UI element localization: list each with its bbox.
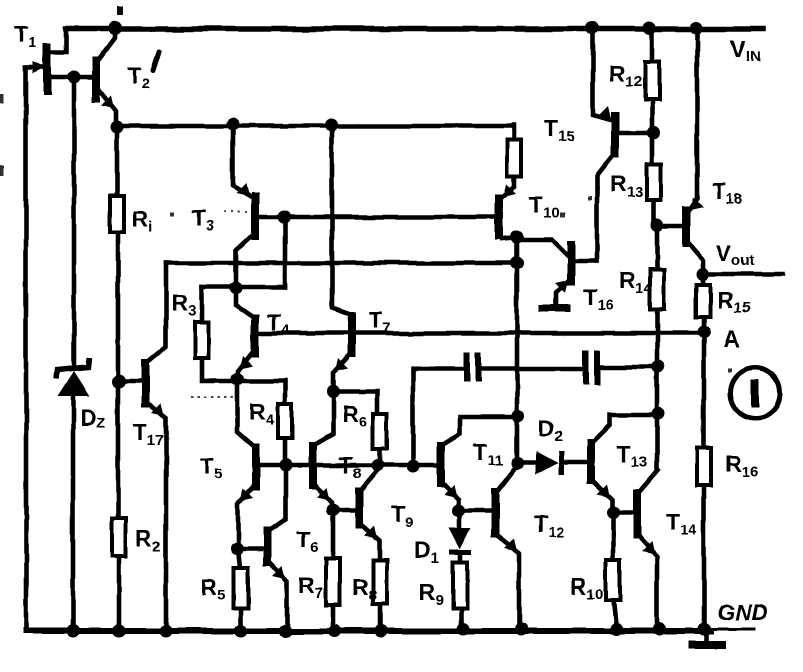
wire T4 emitter bbox=[238, 353, 252, 379]
arrow T3 emitter bbox=[236, 183, 249, 196]
wire T4 collector bbox=[236, 288, 252, 316]
wire Vout line bbox=[703, 272, 783, 277]
svg-text:GND: GND bbox=[717, 599, 768, 625]
arrow T13 emitter bbox=[597, 484, 610, 497]
resistor R9 bbox=[453, 562, 467, 608]
wire R9 bottom bbox=[459, 608, 464, 629]
wire T1 left lead bbox=[26, 65, 42, 70]
scan speck near T2 bbox=[170, 212, 174, 216]
wire T18 emitter bbox=[689, 244, 703, 274]
ground symbol at GND rail bbox=[689, 641, 726, 649]
wire D1 top bbox=[458, 510, 463, 528]
wire T8 collector riser bbox=[316, 392, 333, 444]
wire R16 top bbox=[702, 332, 707, 448]
arrow T4 emitter bbox=[240, 356, 253, 369]
resistor R3 bbox=[195, 322, 209, 358]
transistor T2' bbox=[92, 57, 100, 102]
transistor T10 bbox=[495, 194, 503, 240]
transistor T17 bbox=[141, 359, 149, 408]
resistor R6 bbox=[373, 414, 387, 448]
wire T10 top feed bbox=[512, 125, 517, 140]
wire GND rail thin extension bbox=[711, 628, 754, 631]
wire T16 collector bbox=[574, 259, 597, 264]
wire T3 base bbox=[258, 215, 284, 220]
resistor R2 bbox=[112, 518, 126, 556]
wire T10 to T16 base link bbox=[518, 240, 569, 257]
transistor T8 bbox=[309, 442, 317, 489]
wire T3 base vertical drop bbox=[283, 217, 288, 287]
diode D1 bbox=[449, 528, 471, 552]
scan speck above T1 dot bbox=[117, 6, 123, 15]
scan noise dotted mark near T3 bbox=[224, 211, 250, 213]
scan noise dotted mark left of R4 bbox=[191, 396, 236, 398]
transistor T5 bbox=[252, 444, 260, 491]
wire R14 bottom long vertical bbox=[655, 309, 660, 469]
wire T12 collector bbox=[498, 464, 518, 490]
resistor R10 bbox=[606, 560, 620, 600]
wire T9 emitter to R8 bbox=[362, 526, 379, 560]
wire T13 collector bbox=[594, 415, 656, 441]
transistor T9 bbox=[355, 487, 363, 529]
transistor T16 bbox=[567, 241, 575, 285]
wire T5 collector bbox=[237, 379, 253, 446]
resistor R14 bbox=[650, 270, 664, 309]
wire D1 to R9 bbox=[458, 554, 463, 562]
wire R15 top bbox=[701, 274, 706, 285]
wire R5 bottom bbox=[239, 608, 244, 631]
wire T10 collector from resistor bbox=[503, 176, 514, 196]
wire T15 collector from rail bbox=[593, 29, 611, 120]
transistor T1 bbox=[43, 43, 51, 95]
wire R2 bottom bbox=[117, 556, 122, 631]
wire y287 link bbox=[202, 285, 285, 290]
wire T5 emitter bbox=[238, 488, 253, 549]
wire R14 top bbox=[655, 225, 660, 270]
resistor R1 bbox=[110, 196, 124, 232]
wire y217 base line T3 to T10 bbox=[284, 215, 496, 220]
transistor T15 bbox=[611, 112, 619, 158]
resistor R8 bbox=[373, 560, 387, 604]
ground symbol under T16 bbox=[539, 305, 570, 312]
wire R4 top link bbox=[237, 381, 285, 404]
arrow T18 emitter bbox=[690, 197, 703, 210]
arrow T16 emitter bbox=[555, 280, 568, 293]
arrow T15 emitter bbox=[598, 106, 611, 119]
wire T17 base bbox=[119, 379, 142, 384]
wire T9 collector bbox=[362, 465, 378, 489]
transistor T14 bbox=[633, 489, 641, 539]
transistor T6 bbox=[263, 527, 271, 566]
wire R13 bottom bbox=[652, 200, 657, 225]
wire T7 collector from rail bbox=[332, 125, 349, 314]
arrow T14 emitter bbox=[642, 541, 655, 554]
resistor R4 bbox=[278, 404, 292, 438]
scan speck near A bbox=[728, 368, 732, 372]
arrow T11 emitter bbox=[444, 484, 457, 497]
arrow T5 emitter bbox=[240, 489, 253, 502]
arrow T10 collector bbox=[503, 184, 516, 197]
arrow T12 emitter bbox=[504, 538, 517, 551]
wire R5 top bbox=[238, 549, 240, 568]
wire R16 bottom bbox=[702, 486, 707, 629]
wire second rail bbox=[117, 124, 513, 129]
wire T16 emitter to ground bbox=[556, 281, 568, 305]
scan speck left edge upper bbox=[0, 94, 4, 103]
wire C1 to C2 link bbox=[481, 367, 583, 372]
wire T8 emitter bbox=[316, 486, 332, 510]
wire T3 collector down bbox=[236, 237, 250, 288]
wire T15 base bbox=[618, 131, 652, 136]
wire R1 bottom to T17 base to R2 bbox=[116, 232, 121, 518]
wire T3 emitter drop from rail bbox=[233, 124, 250, 196]
wire cap C1 tap riser bbox=[413, 369, 464, 466]
arrow T7 emitter bbox=[335, 358, 348, 371]
wire T1 collector jog to rail bbox=[50, 29, 66, 52]
wire R7 bottom bbox=[331, 605, 336, 631]
capacitor C2 bbox=[583, 351, 600, 385]
wire R3 bottom bbox=[202, 358, 237, 381]
transistor T4 bbox=[251, 314, 259, 357]
wire T18 collector from rail bbox=[689, 29, 697, 210]
wire DZ upper bbox=[72, 77, 77, 364]
wire T10 emitter diag bbox=[502, 238, 515, 239]
wire R4 bottom bbox=[283, 438, 288, 465]
wire T14 base bbox=[613, 510, 634, 515]
wire T13 emitter bbox=[594, 482, 612, 512]
wire base line y465 T5-T8-T11 bbox=[258, 463, 438, 468]
scan speck near T15 bbox=[560, 213, 565, 218]
arrow T2' emitter bbox=[101, 95, 114, 108]
resistor R5 bbox=[234, 568, 248, 608]
wire T17 collector riser bbox=[148, 263, 166, 361]
wire T17 emitter bbox=[148, 404, 166, 631]
wire T6 emitter bbox=[270, 563, 287, 631]
wire D2 anode link bbox=[518, 460, 536, 465]
wire C2 right link bbox=[600, 365, 658, 370]
wire T14 collector bbox=[640, 470, 658, 491]
resistor R12 bbox=[645, 62, 659, 100]
zener diode DZ bbox=[56, 358, 90, 396]
wire R8 bottom bbox=[378, 604, 383, 631]
wire R12 bottom to R13 bbox=[650, 100, 655, 164]
wire top VIN rail bbox=[66, 26, 763, 32]
wire R6 top link bbox=[333, 392, 377, 414]
wire R6 bottom bbox=[378, 448, 383, 465]
arrow T9 emitter bbox=[364, 526, 377, 539]
wire x518 vertical bbox=[515, 237, 520, 463]
wire DZ lower bbox=[71, 396, 76, 631]
transistor T7 bbox=[348, 312, 356, 357]
wire T2 collector to rail bbox=[100, 29, 115, 58]
svg-text:A: A bbox=[723, 326, 740, 352]
transistor T12 bbox=[491, 488, 499, 538]
wire T11 collector bbox=[444, 417, 516, 444]
wire T18 base bbox=[657, 224, 683, 229]
arrow T17 emitter bbox=[151, 403, 164, 416]
wire left rail bbox=[24, 67, 29, 631]
resistor R13 bbox=[647, 164, 661, 200]
wire node A line bbox=[255, 331, 704, 336]
wire T9 base bbox=[333, 508, 356, 513]
junction dots bbox=[108, 21, 122, 35]
scan speck near R12 bbox=[588, 196, 592, 200]
wire T12 base bbox=[459, 508, 492, 513]
resistor R7 bbox=[326, 559, 340, 605]
wire R7 top bbox=[331, 510, 336, 559]
wire T6 collector riser bbox=[271, 465, 286, 529]
wire R10 top bbox=[611, 512, 616, 560]
transistor T18 bbox=[682, 206, 690, 247]
wire T1 to T2 base link bbox=[50, 75, 93, 80]
wire R12 top bbox=[650, 29, 655, 62]
wire D2 cathode link bbox=[564, 460, 588, 465]
wire R10 bottom bbox=[613, 600, 616, 629]
wire T2 emitter down bbox=[100, 91, 116, 127]
wire T12 emitter bbox=[498, 536, 519, 629]
transistor T13 bbox=[587, 439, 595, 484]
resistor unlabeled above T10 bbox=[507, 140, 521, 176]
wire R15 bottom bbox=[702, 317, 707, 332]
wire GND symbol stub bbox=[705, 629, 710, 641]
capacitor C1 bbox=[464, 352, 481, 382]
wire bottom GND rail bbox=[26, 628, 711, 634]
arrow T1 emitter bbox=[33, 61, 46, 73]
wire T6 base bbox=[238, 547, 264, 552]
wire T7 emitter bbox=[333, 355, 349, 392]
transistor T3 bbox=[251, 192, 259, 240]
wire T11 emitter bbox=[444, 484, 459, 510]
wire R3 top bbox=[200, 287, 205, 322]
wire R1 top feed bbox=[115, 127, 120, 196]
scan speck left edge lower bbox=[0, 165, 4, 176]
wire T14 emitter bbox=[640, 537, 657, 629]
diode D2 bbox=[536, 451, 561, 475]
transistor T11 bbox=[437, 442, 445, 487]
wire y262 line T17 collector net bbox=[166, 261, 517, 266]
resistor R16 bbox=[697, 448, 711, 486]
current source symbol bbox=[730, 368, 780, 418]
arrow T8 emitter bbox=[317, 487, 330, 500]
arrow T6 emitter bbox=[272, 566, 285, 579]
wire T16 collector to T15 emitter bbox=[597, 158, 611, 261]
resistor R15 bbox=[696, 285, 710, 317]
